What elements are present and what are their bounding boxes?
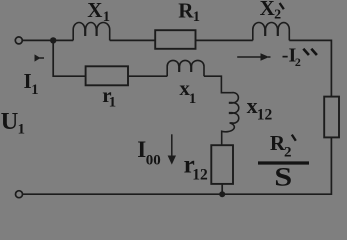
resistor R1 [155, 30, 195, 49]
inductor X1 [73, 22, 110, 40]
wire: X1 to R1 [110, 39, 156, 41]
svg-text:2: 2 [295, 55, 301, 69]
svg-text:U: U [1, 108, 19, 135]
svg-text:X: X [87, 0, 102, 22]
svg-text:1: 1 [189, 91, 197, 107]
svg-text:00: 00 [146, 153, 161, 169]
inductor x1 [167, 60, 204, 76]
wire top: terminal to inductor X1 [22, 39, 73, 41]
wire: R2'/S down and bottom rail to terminal [22, 137, 331, 194]
svg-text:2: 2 [274, 8, 281, 23]
wire: node A down and right to r1 [53, 40, 85, 76]
wire: x1 to vertical jog into x12 [204, 76, 232, 93]
wire: X2' to right edge, down to R2'/S [289, 40, 331, 96]
svg-text:12: 12 [192, 166, 208, 183]
svg-text:1: 1 [109, 95, 117, 111]
resistor r1 [86, 66, 128, 85]
terminal (top input) [15, 37, 22, 44]
fraction bar [258, 161, 309, 164]
inductor x12 (vertical) [222, 93, 239, 146]
wire: r1 to x1 [128, 75, 167, 77]
svg-text:1: 1 [193, 9, 200, 25]
arrow I1 current [35, 54, 41, 61]
svg-text:1: 1 [31, 82, 38, 98]
node B junction dot (bottom) [219, 191, 225, 197]
terminal (bottom) [16, 191, 23, 198]
inductor X2' [253, 23, 289, 41]
arrow -I2'' current [237, 56, 262, 58]
svg-text:2: 2 [284, 144, 292, 160]
resistor R2'/S (vertical) [324, 97, 339, 138]
svg-text:1: 1 [18, 122, 26, 138]
wire: r12 to bottom rail [221, 184, 223, 194]
svg-text:X: X [260, 0, 275, 20]
arrow I00 current [171, 134, 173, 157]
resistor r12 (vertical) [211, 145, 233, 184]
svg-text:1: 1 [103, 9, 110, 25]
svg-text:12: 12 [257, 106, 273, 123]
wire: R1 to X2' [196, 39, 253, 41]
svg-text:S: S [274, 163, 292, 192]
node A junction dot [50, 37, 56, 43]
